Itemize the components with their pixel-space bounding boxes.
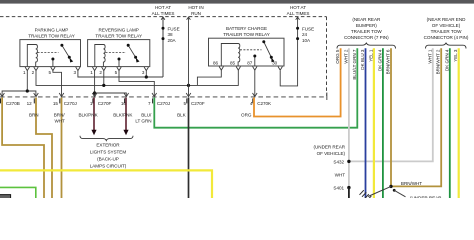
- dashed box right edge: [326, 17, 328, 96]
- wire pin2 R2 down to H2: [103, 71, 105, 86]
- wire ORG net: [254, 48, 341, 116]
- relay R2 pin arrows: [92, 67, 96, 71]
- svg-text:20A: 20A: [168, 38, 177, 43]
- svg-text:FUSE: FUSE: [168, 26, 180, 31]
- svg-text:CONNECTOR (7 PIN): CONNECTOR (7 PIN): [344, 35, 389, 40]
- wire BLU/LT GRN net: [154, 48, 357, 127]
- relay R3 coil: [221, 44, 240, 67]
- relay R2 coil: [95, 45, 105, 67]
- svg-text:C270F: C270F: [191, 101, 205, 106]
- relay R3 coil-switch dashed link: [240, 49, 262, 51]
- fuse 24 terminals: [296, 27, 299, 30]
- svg-text:(UNDER REAR: (UNDER REAR: [314, 145, 346, 150]
- junction H2/BLK: [187, 84, 190, 87]
- wire HOT IN RUN down to conn C270F-5: [188, 17, 190, 96]
- svg-text:38: 38: [168, 32, 174, 37]
- svg-text:BRN/: BRN/: [54, 112, 66, 117]
- svg-text:ALL TIMES: ALL TIMES: [152, 11, 175, 16]
- svg-text:WHT 1: WHT 1: [427, 49, 432, 63]
- svg-text:DK GRN 4: DK GRN 4: [444, 49, 449, 71]
- svg-text:BRN/WHT 2: BRN/WHT 2: [436, 49, 441, 74]
- svg-text:ORG: ORG: [241, 112, 252, 117]
- 7-pin wire DK BLU pin3: [365, 48, 367, 198]
- big yellow wire: [0, 170, 212, 198]
- svg-text:BLK: BLK: [177, 112, 187, 117]
- wire pin3 R2 down to H3: [145, 71, 147, 77]
- relay R1 coil-switch dashed link: [38, 52, 59, 54]
- svg-text:BATTERY CHARGE: BATTERY CHARGE: [226, 26, 267, 31]
- svg-text:RUN: RUN: [191, 11, 201, 16]
- svg-text:HOT AT: HOT AT: [290, 5, 306, 10]
- bus tap arrows: [161, 17, 165, 20]
- svg-text:ORG 5: ORG 5: [335, 49, 340, 64]
- relay R1 box: [20, 40, 81, 67]
- svg-text:(NEAR REAR END: (NEAR REAR END: [427, 17, 466, 22]
- svg-text:TRAILER TOW RELAY: TRAILER TOW RELAY: [223, 32, 270, 37]
- wire pin87 R3 to conn C270K-4: [254, 70, 256, 97]
- relay R3 switch blade: [264, 42, 272, 58]
- wire below S401: [348, 188, 350, 198]
- 7-pin brace: [337, 43, 396, 49]
- svg-text:WHT: WHT: [335, 173, 346, 178]
- junction BRN/WHT bottom: [389, 185, 392, 188]
- junction pin1R2/H5: [93, 91, 96, 94]
- svg-text:HOT AT: HOT AT: [155, 5, 171, 10]
- svg-text:TRAILER TOW: TRAILER TOW: [351, 29, 382, 34]
- svg-text:C270J: C270J: [64, 101, 77, 106]
- wire pin1 R1 down to H1: [26, 71, 28, 91]
- 7-pin wire BRN/WHT pin6: [391, 48, 441, 186]
- relay R3 pin arrows: [219, 67, 223, 71]
- wire H4: pin5 R2 to conn C270J-7: [119, 71, 154, 97]
- svg-text:LT GRN: LT GRN: [135, 118, 151, 123]
- 4-pin brace: [426, 43, 467, 49]
- wire H1: conn C270B-12 to conn C270J-15: [2, 91, 36, 97]
- wire pin86 R3 jog to H2: [197, 70, 221, 85]
- svg-text:(NEAR REAR: (NEAR REAR: [352, 17, 381, 22]
- wire pin1 R2 to conn C270F-1: [94, 71, 96, 97]
- svg-text:LIGHTS SYSTEM: LIGHTS SYSTEM: [90, 150, 126, 155]
- fuse 38 wire: [162, 17, 164, 77]
- svg-text:87: 87: [247, 61, 253, 66]
- hot bus dashed line: [0, 16, 327, 18]
- junction H2/pin2R2: [102, 84, 105, 87]
- svg-text:TRAILER TOW RELAY: TRAILER TOW RELAY: [28, 33, 75, 38]
- svg-text:BLU/: BLU/: [141, 112, 152, 117]
- connector row end tick: [326, 93, 328, 101]
- svg-text:BRN/WHT: BRN/WHT: [401, 181, 422, 186]
- svg-text:85: 85: [230, 61, 236, 66]
- green component box bottom-left: [0, 187, 36, 198]
- 4-pin wire DK GRN pin4: [449, 48, 451, 198]
- svg-text:TRAILER TOW: TRAILER TOW: [431, 29, 462, 34]
- svg-text:HOT IN: HOT IN: [188, 5, 203, 10]
- wire H3: pin3 R1 / pin3 R2 to fuse 38: [78, 71, 163, 77]
- junction H3/pin3R2: [145, 75, 148, 78]
- 4-pin wire YEL pin3: [458, 48, 460, 198]
- wire BLK/PNK C270F-10: [125, 98, 127, 131]
- junction H1/pin1: [26, 89, 29, 92]
- svg-text:CONNECTOR (4 PIN): CONNECTOR (4 PIN): [424, 35, 469, 40]
- svg-text:C270F: C270F: [98, 101, 112, 106]
- brace exterior lights: [80, 136, 133, 141]
- wire BRN C270B-12: [2, 98, 44, 199]
- svg-text:86: 86: [213, 61, 219, 66]
- 7-pin wire YEL pin1: [373, 48, 375, 198]
- svg-text:BUMPER): BUMPER): [356, 23, 377, 28]
- fuse 38 terminals: [162, 27, 165, 30]
- svg-text:ALL TIMES: ALL TIMES: [287, 11, 310, 16]
- svg-text:DK BLU 3: DK BLU 3: [360, 49, 365, 70]
- relay R2 coil-switch dashed link: [106, 52, 127, 54]
- relay R3 box: [209, 38, 285, 66]
- connector row gray dashed line: [0, 96, 327, 98]
- svg-text:12: 12: [27, 101, 33, 106]
- relay R1 contact stub pin5: [52, 60, 54, 67]
- svg-text:C270B: C270B: [6, 101, 20, 106]
- svg-text:YEL 3: YEL 3: [453, 49, 458, 62]
- wire BLK conn C270F-5: [188, 98, 190, 199]
- svg-text:(UNDER REAR: (UNDER REAR: [410, 196, 442, 199]
- relay R2 contact stub pin5: [118, 60, 120, 67]
- svg-text:LAMPS CIRCUIT): LAMPS CIRCUIT): [90, 164, 127, 169]
- svg-text:C270J: C270J: [157, 101, 170, 106]
- relay R2 box: [88, 40, 150, 67]
- svg-text:WHT 2: WHT 2: [343, 49, 348, 63]
- svg-text:BLK/PNK: BLK/PNK: [113, 112, 133, 117]
- svg-text:BRN: BRN: [29, 112, 39, 117]
- svg-text:OF VEHICLE): OF VEHICLE): [432, 23, 461, 28]
- relay R1 coil: [27, 45, 37, 67]
- svg-text:OF VEHICLE): OF VEHICLE): [317, 151, 346, 156]
- fuse 24 wire + run to relay3 pin 30: [280, 17, 297, 86]
- wire BRN conn-12: [36, 98, 52, 199]
- relay R1 pin arrows: [25, 67, 29, 71]
- relay R3 contact stub pin87: [254, 57, 256, 67]
- wire BRN/WHT conn-15: [61, 98, 63, 199]
- svg-text:YEL 1: YEL 1: [368, 49, 373, 62]
- svg-text:15: 15: [53, 101, 59, 106]
- svg-text:BRN/WHT 6: BRN/WHT 6: [386, 49, 391, 74]
- 7-pin wire WHT pin2: [349, 48, 433, 161]
- svg-text:S432: S432: [333, 159, 344, 164]
- wire H5: branch to conn C270F-10: [95, 93, 127, 97]
- pointer line to ground label: [394, 190, 405, 197]
- svg-text:S401: S401: [333, 186, 344, 191]
- svg-text:WHT: WHT: [54, 118, 65, 123]
- gray component in green box: [0, 195, 11, 200]
- svg-text:BLU/LT GRN 7: BLU/LT GRN 7: [352, 49, 357, 79]
- svg-text:(BACK-UP: (BACK-UP: [97, 157, 119, 162]
- svg-text:10A: 10A: [302, 38, 311, 43]
- svg-text:C270K: C270K: [257, 101, 272, 106]
- svg-text:TRAILER TOW RELAY: TRAILER TOW RELAY: [95, 33, 142, 38]
- relay R2 switch blade: [128, 45, 135, 57]
- svg-text:DK GRN 4: DK GRN 4: [377, 49, 382, 71]
- connector arrows on gray line: [0, 93, 257, 97]
- svg-text:BLK/PNK: BLK/PNK: [78, 112, 98, 117]
- 7-pin wire DK GRN pin4: [382, 48, 384, 198]
- connector ticks below line: [1, 98, 253, 103]
- junction pointer dot: [393, 189, 396, 192]
- svg-text:PARKING LAMP: PARKING LAMP: [35, 27, 69, 32]
- ground wire diagonal: [368, 186, 391, 196]
- svg-text:FUSE: FUSE: [302, 26, 314, 31]
- wire BLK/PNK C270F-1: [93, 98, 95, 131]
- top toolbar bar: [0, 0, 474, 4]
- relay R1 switch blade: [62, 45, 69, 57]
- svg-text:24: 24: [302, 32, 308, 37]
- ground symbol: [360, 190, 372, 200]
- svg-text:EXTERIOR: EXTERIOR: [96, 143, 120, 148]
- wire H2: pin2 R1 across to pin85 R3: [36, 70, 238, 85]
- svg-text:30: 30: [272, 61, 278, 66]
- wire pin5 R1 to conn C270J-15b: [53, 71, 62, 97]
- svg-text:REVERSING LAMP: REVERSING LAMP: [99, 27, 139, 32]
